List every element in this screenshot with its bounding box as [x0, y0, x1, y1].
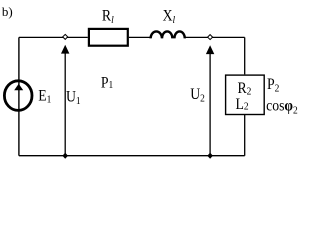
svg-text:Rl: Rl	[102, 8, 114, 26]
node junction left	[63, 34, 68, 39]
svg-text:P1: P1	[101, 75, 113, 92]
svg-text:cosφ2: cosφ2	[266, 98, 298, 117]
svg-text:Xl: Xl	[163, 8, 176, 26]
voltage source E1	[4, 81, 32, 111]
junction dot U1 bottom	[62, 153, 68, 159]
junction dot U2 bottom	[207, 153, 213, 159]
svg-text:U1: U1	[66, 89, 81, 108]
arrow U1	[61, 45, 69, 156]
wire right	[244, 37, 246, 155]
load box R2 L2	[226, 75, 265, 114]
node junction right	[208, 35, 213, 40]
arrow U2	[206, 45, 214, 155]
wire left	[18, 37, 20, 155]
svg-text:U2: U2	[190, 86, 205, 105]
svg-text:P2: P2	[267, 76, 279, 94]
svg-text:E1: E1	[38, 87, 51, 105]
wire top	[19, 36, 245, 38]
wire bottom	[19, 155, 245, 157]
resistor Rl	[89, 29, 128, 46]
inductor Xl	[151, 31, 185, 38]
svg-text:b): b)	[2, 4, 13, 19]
